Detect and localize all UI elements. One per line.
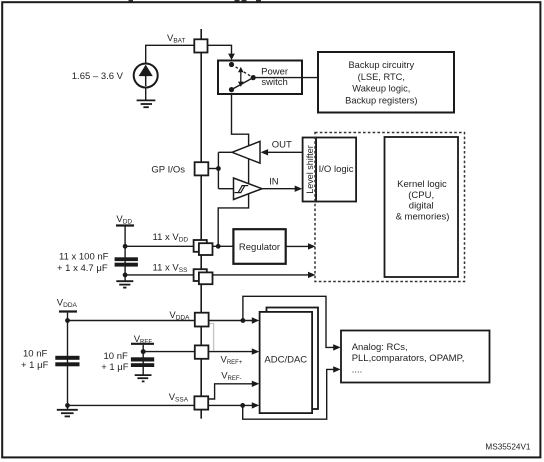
svg-text:Backup circuitry: Backup circuitry: [348, 60, 414, 70]
svg-text:ADC/DAC: ADC/DAC: [264, 354, 307, 365]
svg-text:1.65 – 3.6 V: 1.65 – 3.6 V: [72, 71, 124, 82]
svg-text:GP I/Os: GP I/Os: [151, 164, 185, 175]
svg-text:Analog: RCs,: Analog: RCs,: [352, 342, 408, 353]
svg-text:digital: digital: [409, 201, 434, 212]
svg-text:+ 1 μF: + 1 μF: [101, 362, 129, 373]
svg-text:MS35524V1: MS35524V1: [485, 443, 531, 452]
svg-text:Wakeup logic,: Wakeup logic,: [352, 84, 410, 94]
svg-text:& memories): & memories): [396, 211, 450, 222]
svg-text:switch: switch: [261, 77, 287, 88]
svg-text:PLL,comparators, OPAMP,: PLL,comparators, OPAMP,: [352, 353, 465, 364]
svg-text:+ 1 x 4.7 μF: + 1 x 4.7 μF: [57, 263, 108, 274]
svg-text:10 nF: 10 nF: [104, 351, 128, 362]
svg-text:OUT: OUT: [272, 140, 292, 151]
svg-text:I/O logic: I/O logic: [319, 164, 354, 175]
svg-text:....: ....: [352, 365, 363, 376]
svg-text:+ 1 μF: + 1 μF: [21, 360, 49, 371]
svg-text:10 nF: 10 nF: [23, 348, 47, 359]
svg-text:(LSE, RTC,: (LSE, RTC,: [358, 72, 405, 82]
svg-text:Kernel logic: Kernel logic: [397, 179, 447, 190]
svg-text:IN: IN: [269, 177, 279, 188]
svg-text:Regulator: Regulator: [239, 242, 280, 253]
svg-text:(CPU,: (CPU,: [408, 190, 434, 201]
svg-text:Backup registers): Backup registers): [345, 95, 417, 105]
svg-text:Level shifter: Level shifter: [305, 145, 315, 194]
svg-text:11 x 100 nF: 11 x 100 nF: [59, 252, 109, 263]
